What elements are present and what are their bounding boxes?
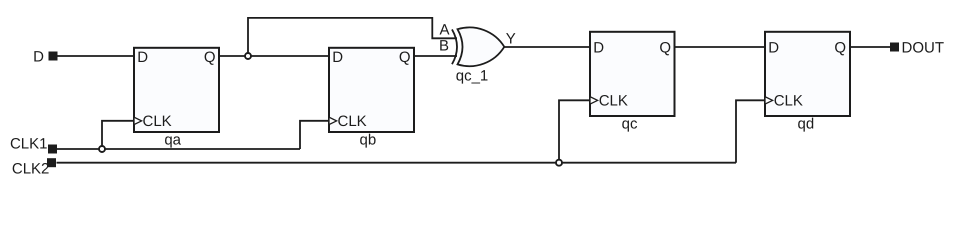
svg-text:qc: qc	[622, 116, 638, 133]
svg-text:Q: Q	[399, 49, 411, 66]
port CLK1 input terminal	[10, 135, 57, 153]
qc clock triangle	[590, 97, 598, 104]
svg-text:D: D	[33, 49, 44, 66]
wire qa.Q to qb.D	[219, 55, 329, 57]
qd clock triangle	[765, 97, 773, 104]
svg-text:CLK2: CLK2	[12, 161, 50, 178]
svg-text:A: A	[439, 21, 449, 38]
port DOUT output terminal	[890, 40, 944, 57]
junction node at qa.Q	[245, 53, 251, 59]
svg-text:qd: qd	[798, 116, 815, 133]
qb body	[329, 48, 414, 132]
qa body	[134, 48, 219, 132]
flip-flop qd	[765, 32, 850, 133]
svg-text:qb: qb	[360, 132, 377, 149]
svg-text:D: D	[332, 49, 343, 66]
svg-text:Q: Q	[659, 40, 671, 57]
port D input terminal	[33, 49, 57, 66]
wire qc_1.Y to qc.D	[504, 46, 590, 48]
svg-text:Q: Q	[834, 40, 846, 57]
wire CLK1 to qa.CLK	[102, 121, 134, 149]
svg-text:Y: Y	[506, 31, 516, 48]
qc_1 body	[458, 27, 505, 66]
qc_1 input back arc	[452, 29, 457, 64]
xor gate qc_1	[439, 21, 516, 84]
svg-text:D: D	[593, 40, 604, 57]
wire qc.Q to qd.D	[675, 46, 766, 48]
wire CLK1 bus	[57, 148, 300, 150]
junction node on CLK2 bus	[556, 160, 562, 166]
qa clock triangle	[134, 117, 142, 124]
port CLK2 input terminal	[12, 158, 56, 177]
svg-text:CLK1: CLK1	[10, 135, 48, 152]
svg-text:qc_1: qc_1	[456, 68, 489, 85]
wire qd.Q to DOUT port	[850, 46, 890, 48]
wire qa.Q feedback to qc_1.A	[248, 18, 457, 56]
flip-flop qb	[329, 48, 414, 149]
junction node on CLK1 bus	[99, 146, 105, 152]
svg-text:DOUT: DOUT	[902, 40, 945, 57]
svg-text:qa: qa	[164, 132, 181, 149]
svg-text:D: D	[137, 49, 148, 66]
qc body	[590, 32, 675, 116]
wire qb.Q to qc_1.B	[414, 55, 457, 57]
wire D port to qa.D	[57, 55, 134, 57]
svg-text:CLK: CLK	[599, 93, 628, 110]
flip-flop qc	[590, 32, 675, 133]
flip-flop qa	[134, 48, 219, 149]
qb clock triangle	[329, 117, 337, 124]
wire CLK2 to qd.CLK	[736, 100, 765, 162]
wire CLK2 bus	[57, 162, 737, 164]
qd body	[765, 32, 850, 116]
wire CLK2 to qc.CLK	[559, 100, 590, 162]
svg-text:CLK: CLK	[774, 93, 803, 110]
svg-text:Q: Q	[204, 49, 216, 66]
svg-text:B: B	[439, 37, 449, 54]
wire CLK1 to qb.CLK	[300, 121, 329, 149]
svg-text:CLK: CLK	[338, 113, 367, 130]
svg-text:CLK: CLK	[143, 113, 172, 130]
svg-text:D: D	[768, 40, 779, 57]
